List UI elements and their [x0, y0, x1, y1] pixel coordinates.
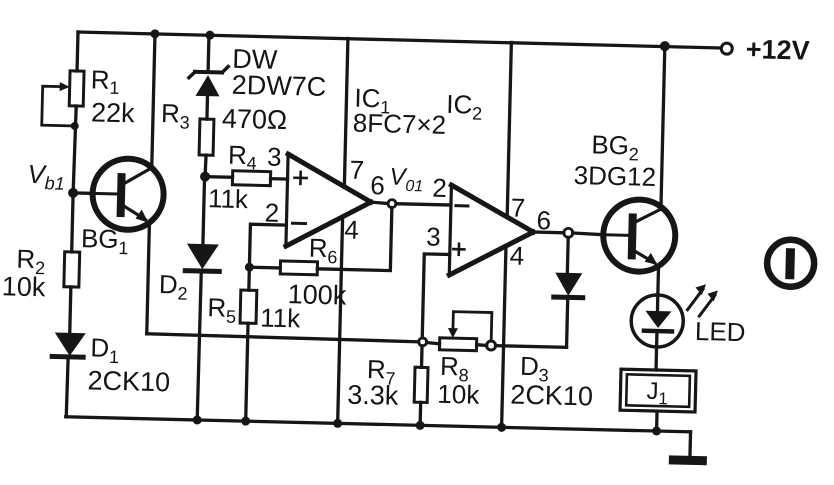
- node: R1 wiper junction dot: [71, 122, 79, 130]
- wire: IC2 pin 4 down to bottom rail: [502, 246, 506, 427]
- relay J1: [620, 369, 696, 412]
- wire: left column top (rail to R1): [75, 32, 79, 71]
- wire: junction to R6: [249, 266, 280, 270]
- wire: rail corner to ground: [688, 432, 692, 457]
- resistor R4: [232, 171, 270, 186]
- wire: R2 to D1: [70, 287, 71, 334]
- svg-text:8FC7×2: 8FC7×2: [353, 108, 447, 140]
- wire: junction down to D2: [203, 176, 205, 244]
- diode D1: [52, 332, 86, 357]
- svg-text:11k: 11k: [208, 183, 250, 214]
- node: R7/R8/pin3 junction circle: [419, 338, 427, 346]
- potentiometer R8 body: [439, 338, 476, 351]
- resistor R6: [280, 261, 317, 275]
- svg-text:3DG12: 3DG12: [573, 160, 656, 192]
- svg-text:D2: D2: [158, 269, 188, 304]
- svg-text:10k: 10k: [1, 271, 46, 302]
- node: bottom rail dot (R5): [241, 417, 250, 426]
- svg-text:J1: J1: [646, 378, 668, 409]
- node: bottom rail dot (R7): [416, 421, 425, 430]
- wire: apex to output circle: [371, 202, 388, 203]
- op-amp IC1: [286, 154, 372, 248]
- node: R3/R4/D2 junction dot: [200, 171, 210, 181]
- resistor R1 (potentiometer body): [69, 71, 84, 106]
- svg-text:10k: 10k: [437, 379, 481, 410]
- svg-text:7: 7: [349, 155, 364, 185]
- node: IC2 output junction circle: [564, 228, 573, 237]
- node: IC1 output circle: [388, 200, 396, 208]
- svg-text:+12V: +12V: [745, 34, 810, 66]
- wire: D3 to R8 wire: [567, 298, 568, 347]
- node: bottom rail dot (D2): [193, 415, 202, 424]
- resistor R5: [240, 290, 257, 323]
- wire: junction to R8: [427, 342, 440, 343]
- svg-text:R1: R1: [90, 64, 120, 98]
- op-amp IC2: [449, 185, 534, 277]
- svg-text:R3: R3: [161, 98, 191, 133]
- svg-text:2: 2: [264, 198, 279, 228]
- wire: R5 junction down to R5: [247, 267, 251, 290]
- node: rail junction dot (BG1 collector): [150, 29, 159, 38]
- wire: Vb1 down to R2: [72, 193, 73, 252]
- node Vb1 junction dot: [68, 188, 78, 198]
- svg-text:6: 6: [536, 205, 551, 235]
- svg-text:3: 3: [426, 221, 441, 251]
- svg-text:Vb1: Vb1: [27, 159, 65, 194]
- wire: R1 bottom to Vb1 node: [73, 106, 76, 193]
- svg-text:LED: LED: [695, 316, 746, 347]
- figure number badge (circled 1): [767, 239, 815, 287]
- wire: emitter horizontal run to R7/R8 junction: [147, 334, 419, 342]
- wire: BG2 collector to rail: [661, 46, 665, 209]
- node: +12V open terminal: [721, 43, 732, 54]
- svg-text:2: 2: [432, 173, 447, 203]
- wire: IC2 apex to output junction: [533, 230, 563, 234]
- svg-text:R4: R4: [228, 140, 258, 174]
- svg-text:11k: 11k: [260, 302, 302, 333]
- svg-text:22k: 22k: [91, 97, 136, 128]
- svg-text:IC2: IC2: [446, 89, 483, 124]
- svg-text:2CK10: 2CK10: [87, 365, 170, 397]
- wire: J1 to bottom rail: [655, 411, 659, 431]
- wire: R8 terminal to D3: [496, 346, 567, 348]
- wire: R8 to right terminal: [477, 343, 487, 347]
- resistor R7: [414, 367, 428, 402]
- wire: R3 to junction: [205, 155, 206, 176]
- diode D2: [185, 244, 220, 272]
- wire: junction to R4: [205, 175, 232, 179]
- LED light arrows: [687, 284, 718, 317]
- svg-text:6: 6: [370, 170, 385, 200]
- wire: +12V top rail: [78, 32, 720, 48]
- svg-text:V01: V01: [389, 164, 424, 196]
- resistor R3: [199, 119, 214, 155]
- node: bottom rail dot (IC1 pin 4): [333, 419, 342, 428]
- node: R5/R6 feedback junction dot: [245, 263, 254, 272]
- svg-text:D1: D1: [90, 332, 120, 367]
- ground symbol: [669, 455, 707, 465]
- potentiometer R1 wiper arrow: [42, 82, 76, 126]
- svg-text:R5: R5: [207, 292, 237, 327]
- node: bottom rail dot (J1): [652, 426, 661, 435]
- svg-text:470Ω: 470Ω: [222, 103, 288, 135]
- wire: R5 to bottom rail: [246, 323, 248, 421]
- transistor BG1: [92, 158, 165, 231]
- wire: BG1 collector to rail: [152, 34, 155, 168]
- svg-text:2DW7C: 2DW7C: [231, 70, 326, 102]
- diode D3: [554, 273, 584, 298]
- wire: output junction to BG2 base: [573, 233, 604, 235]
- wire: junction to R7: [420, 346, 424, 367]
- svg-text:BG2: BG2: [591, 129, 639, 164]
- wire: D1 to bottom rail: [66, 357, 68, 417]
- wire: LED to relay J1: [654, 331, 658, 370]
- wire: BG1 emitter down: [147, 223, 150, 334]
- svg-text:4: 4: [344, 214, 359, 244]
- wire: IC1 pin 2 input: [249, 224, 286, 268]
- node: rail junction dot (DW branch): [205, 31, 214, 40]
- svg-text:R6: R6: [308, 233, 338, 268]
- resistor R2: [64, 252, 80, 287]
- wire: R6 to IC1 output loop: [317, 206, 391, 271]
- wire: bottom ground rail: [66, 417, 691, 432]
- wire: IC2 pin 7 from rail: [507, 42, 511, 216]
- node: rail junction dot (BG2 collector): [660, 41, 670, 51]
- svg-text:3.3k: 3.3k: [347, 380, 399, 411]
- node: bottom rail dot (IC2 pin 4): [497, 423, 506, 432]
- wire: IC2 output down to D3: [566, 237, 570, 272]
- node: R8 right terminal circle: [486, 341, 495, 350]
- wire: D2 to bottom rail: [197, 271, 201, 420]
- wire: BG2 emitter down to LED: [657, 266, 658, 311]
- wire: DW to R3: [205, 96, 209, 119]
- wire: IC1 pin 7 from rail: [344, 39, 348, 188]
- wire: IC2 pin 3 input: [422, 254, 450, 339]
- svg-text:3: 3: [267, 142, 282, 172]
- svg-text:7: 7: [511, 192, 526, 222]
- wire: Vb1 to BG1 base: [73, 191, 93, 195]
- wire: R7 to bottom rail: [418, 402, 422, 425]
- svg-text:4: 4: [509, 240, 524, 270]
- wire: rail to zener DW: [206, 35, 210, 72]
- wire: R4 to IC1 pin 3: [271, 177, 288, 181]
- LED indicator: [631, 294, 684, 347]
- zener diode DW: [188, 66, 228, 97]
- wire: Vo1 to IC2 pin 2: [396, 204, 451, 205]
- wire: IC1 pin 4 down to bottom rail: [338, 217, 343, 423]
- transistor BG2: [602, 199, 676, 273]
- svg-text:2CK10: 2CK10: [510, 380, 593, 412]
- potentiometer R8 wiper arrow and strap: [448, 312, 492, 342]
